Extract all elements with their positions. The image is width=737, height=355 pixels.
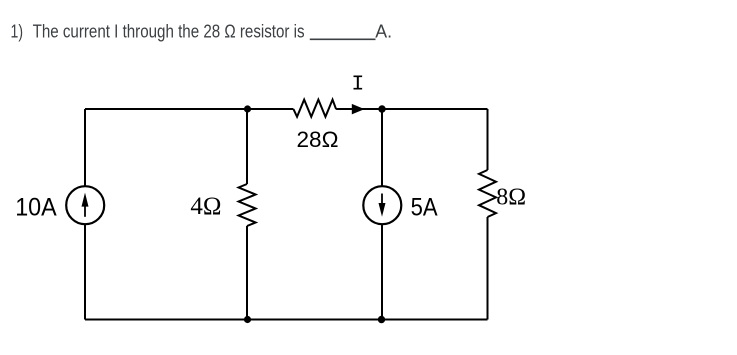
current source 10A (circle) bbox=[66, 186, 104, 224]
wire from 28-ohm resistor to node B bbox=[336, 108, 382, 110]
wire middle branch (4-ohm) lower bbox=[246, 226, 248, 320]
svg-text:28Ω: 28Ω bbox=[297, 127, 339, 152]
svg-text:8Ω: 8Ω bbox=[496, 185, 526, 211]
junction node dot top of 4-ohm branch bbox=[244, 105, 251, 112]
resistor 8-ohm (vertical zigzag) bbox=[479, 170, 496, 217]
svg-text:The current I through the 28 Ω: The current I through the 28 Ω resistor … bbox=[33, 21, 305, 41]
wire 5A branch upper bbox=[381, 109, 383, 187]
svg-text:A.: A. bbox=[375, 21, 392, 41]
wire middle branch (4-ohm) upper bbox=[246, 109, 248, 184]
wire right branch lower bbox=[487, 217, 489, 320]
current source 10A arrow (up) bbox=[84, 205, 86, 217]
wire right branch upper bbox=[487, 109, 489, 170]
wire left branch lower bbox=[84, 224, 86, 320]
wire left branch upper bbox=[84, 109, 86, 187]
svg-text:10A: 10A bbox=[15, 193, 57, 221]
current source 5A (circle) bbox=[363, 186, 401, 224]
wire 5A branch lower bbox=[381, 224, 383, 320]
resistor 28-ohm (horizontal zigzag) bbox=[294, 100, 337, 117]
svg-text:1): 1) bbox=[11, 21, 24, 41]
wire bottom rail bbox=[85, 319, 488, 321]
svg-text:4Ω: 4Ω bbox=[190, 193, 221, 220]
junction node dot bottom of 4-ohm branch bbox=[244, 316, 251, 323]
resistor 4-ohm (vertical zigzag) bbox=[239, 184, 256, 226]
junction node dot bottom of 5A branch bbox=[378, 316, 385, 323]
current direction arrowhead I bbox=[352, 104, 365, 115]
svg-text:5A: 5A bbox=[411, 193, 438, 221]
question text bbox=[11, 21, 393, 41]
wire node B to top-right corner bbox=[382, 108, 488, 110]
wire top-left segment (node A to 28-ohm resistor) bbox=[85, 108, 294, 110]
answer blank line bbox=[310, 38, 376, 40]
svg-text:I: I bbox=[351, 73, 364, 97]
junction node dot top of 5A branch bbox=[378, 105, 385, 112]
current source 5A arrow (down) bbox=[381, 194, 383, 206]
